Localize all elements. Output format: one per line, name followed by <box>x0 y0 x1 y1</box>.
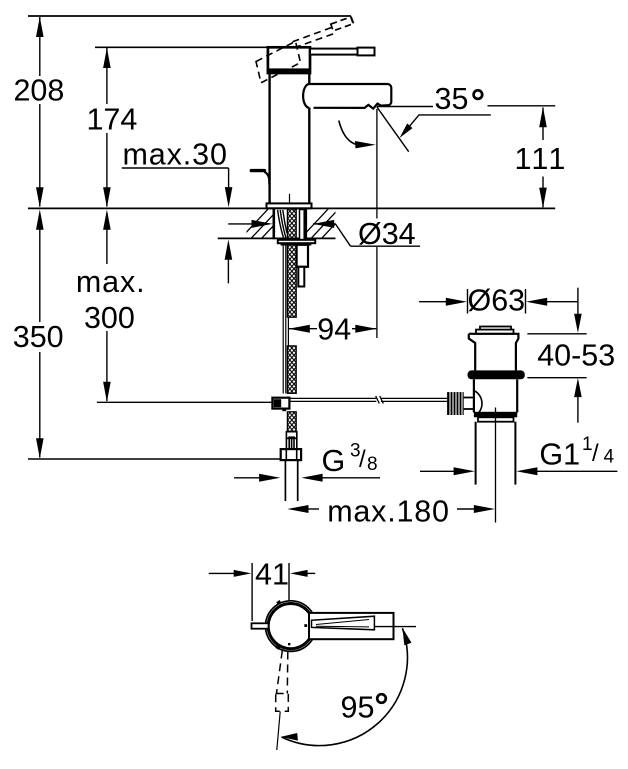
arc 95deg <box>282 628 408 745</box>
dim 174 <box>106 48 108 207</box>
svg-text:41: 41 <box>255 557 289 591</box>
max.300 reference line <box>97 401 273 403</box>
max.30 lower arrow under counter <box>227 258 229 283</box>
dim 111 <box>542 108 544 141</box>
counter hatching right <box>300 207 351 239</box>
svg-text:350: 350 <box>13 320 64 354</box>
svg-text:/: / <box>592 440 599 467</box>
lever solid <box>310 49 358 55</box>
supply pipe <box>284 460 286 501</box>
dim 40-53 <box>577 288 579 315</box>
faucet head <box>268 47 310 73</box>
rod stub left <box>252 623 269 628</box>
svg-text:max.30: max.30 <box>122 138 227 172</box>
nut G3/8 <box>281 449 301 460</box>
svg-text:300: 300 <box>84 301 135 335</box>
rod guide in shank <box>300 210 305 241</box>
dim 208 <box>39 17 41 207</box>
ring lug lower <box>275 645 280 650</box>
reference line 174 datum <box>95 46 268 48</box>
dim 350 <box>39 213 41 322</box>
vertical extension line from outlet <box>376 109 378 219</box>
leader for 35deg <box>404 115 491 133</box>
svg-text:max.180: max.180 <box>327 495 450 529</box>
350 reference line bottom <box>28 458 290 460</box>
dim 94 <box>289 328 317 330</box>
svg-text:40-53: 40-53 <box>537 339 615 373</box>
svg-text:95: 95 <box>341 691 375 725</box>
base plate <box>267 203 312 208</box>
lower dot <box>288 643 290 645</box>
lever top view <box>309 613 394 639</box>
horizontal ref line right of lever <box>375 626 416 628</box>
svg-text:111: 111 <box>515 142 568 176</box>
drain centerline <box>495 408 497 523</box>
pop-up vertical rod <box>282 243 284 393</box>
dim max.300 <box>106 213 108 264</box>
counter bottom line <box>218 237 336 239</box>
knurled knob <box>447 392 464 415</box>
svg-text:174: 174 <box>86 103 137 137</box>
svg-text:1: 1 <box>582 434 593 455</box>
supply hose braid segments <box>287 209 296 432</box>
pop-up rod hook behind column <box>251 169 264 172</box>
svg-text:max.: max. <box>76 265 146 299</box>
stream line 35deg <box>377 107 409 152</box>
linkage rod horizontal <box>289 396 447 404</box>
pop-up rod housing <box>297 245 308 267</box>
hose/rod coupling <box>272 398 289 409</box>
svg-text:8: 8 <box>367 454 378 475</box>
top view outer ring <box>266 601 317 652</box>
pivot dot <box>304 624 307 627</box>
pop-up rod through base <box>289 194 291 208</box>
drain tailpipe <box>475 422 477 485</box>
ring lug upper <box>276 600 281 605</box>
reference line top datum 208 <box>28 15 351 17</box>
shank walls through counter <box>272 208 275 239</box>
drain body bottom bar <box>474 412 517 418</box>
svg-text:G: G <box>322 444 346 478</box>
faucet body column <box>268 72 270 204</box>
lever dashed (raised position) <box>293 27 335 48</box>
mounting washer <box>278 240 315 243</box>
dashed lever pointing down <box>277 651 288 694</box>
svg-text:35: 35 <box>435 82 469 116</box>
svg-text:4: 4 <box>604 447 615 468</box>
drain body lower <box>473 379 475 412</box>
hose curve inside shank <box>278 210 287 238</box>
drain plug cap <box>480 327 511 331</box>
top view body circle <box>268 604 313 649</box>
drain body upper <box>469 334 519 371</box>
swivel arc arrow <box>339 121 357 145</box>
svg-text:/: / <box>359 446 366 473</box>
spout <box>303 84 391 109</box>
svg-text:G1: G1 <box>539 438 580 472</box>
ribbed hose end fitting <box>286 432 296 439</box>
pipe thread arrows <box>234 477 264 479</box>
drain flange <box>468 370 525 379</box>
head dashed (rotated position) <box>256 41 301 83</box>
counter top line <box>28 207 555 209</box>
svg-text:208: 208 <box>13 74 64 108</box>
counter hatching left <box>240 207 291 239</box>
horizontal reference line at outlet level <box>377 106 433 108</box>
svg-text:94: 94 <box>317 312 351 346</box>
tailpipe width arrows <box>420 470 456 472</box>
dim max.180 <box>304 508 319 510</box>
svg-text:Ø63: Ø63 <box>468 283 526 317</box>
dim 41 <box>251 563 253 621</box>
dim Ø63 <box>467 289 469 314</box>
